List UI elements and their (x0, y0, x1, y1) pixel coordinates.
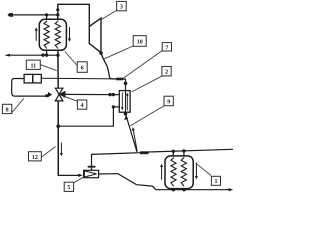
node recuperator lower port (112, 105, 115, 108)
svg-text:8: 8 (6, 108, 9, 114)
node condenser top stub 2 (182, 149, 185, 152)
svg-text:5: 5 (67, 185, 70, 191)
leader 10 (104, 46, 133, 59)
node HX1 bottom stub 2 (56, 54, 59, 57)
label 3 (117, 1, 127, 10)
label 12 (29, 152, 42, 161)
label boxes (2, 1, 220, 191)
svg-text:2: 2 (165, 70, 168, 76)
label 6 (77, 62, 87, 73)
leader 5 (74, 177, 84, 183)
node condenser bottom stub 2 (182, 188, 185, 191)
leader 9 (131, 106, 165, 126)
node condenser bottom stub 1 (172, 188, 175, 191)
coil zigzag 1 of E2 (171, 158, 176, 186)
node junction top header / riser (56, 13, 59, 16)
center pipe through recuperator (125, 91, 127, 114)
svg-text:1: 1 (215, 179, 218, 185)
flow arrow beside slant pipe (133, 130, 137, 151)
wire left feed line y=55 (6, 54, 58, 56)
wire pump P2 top line to condenser top header (92, 153, 141, 155)
leader lines (12, 11, 211, 183)
svg-text:12: 12 (32, 155, 38, 161)
leader 12 (42, 147, 56, 157)
wire HX1 top stub (46, 15, 48, 20)
wire condenser top header to right edge (149, 149, 233, 152)
flow arrow up, left of E1 (35, 30, 37, 41)
flow arrow up, left of E2 (161, 166, 163, 179)
pump P2 vent stub (91, 154, 93, 170)
wire exhaust elbow down into recuperator (123, 79, 126, 91)
label 1 (211, 176, 220, 185)
node junction top header / HX1 stub (45, 13, 48, 16)
leader 6 (65, 52, 77, 66)
svg-text:3: 3 (120, 5, 123, 11)
node on valve-recuperator line 1 (108, 93, 111, 96)
node turbine exhaust (99, 51, 103, 55)
wire pump suction loop to valve (12, 79, 47, 97)
pump P2 (bottom center) (84, 170, 99, 177)
valve lower triangle (55, 94, 63, 101)
pump P1 double box (24, 74, 33, 83)
leader 2 (132, 76, 162, 92)
svg-text:10: 10 (137, 40, 143, 46)
node HX1 bottom stub 1 (45, 53, 48, 56)
wire HX1 to turbine steam line (58, 4, 90, 26)
wire HX1 down to valve (57, 50, 59, 88)
flow arrow down, right of E2 (195, 163, 197, 177)
leader 3 (101, 11, 117, 20)
leader 4 (66, 97, 77, 101)
recuperator U1 (tall rectangle) (119, 91, 130, 113)
label 5 (64, 182, 73, 191)
svg-text:9: 9 (167, 100, 170, 106)
leader 7 (123, 51, 162, 79)
restrictor bar 2 (140, 151, 149, 154)
node on valve-recuperator line 2 (112, 93, 115, 96)
svg-text:4: 4 (81, 103, 84, 109)
coil zigzag 1 of E1 (44, 21, 49, 48)
arrow into pump2 (78, 174, 83, 177)
wire valve bottom pipe down (57, 101, 59, 175)
coil zigzag 2 of E1 (55, 21, 60, 48)
leader 11 (41, 65, 57, 71)
node loop end (45, 94, 48, 97)
wire condenser top stubs (172, 151, 174, 156)
wire condenser bottom stubs (172, 189, 174, 190)
valve upper triangle (55, 88, 63, 94)
wire turbine exhaust curve (101, 53, 116, 79)
node recuperator bottom (124, 112, 128, 116)
wire elbow to pump2 inlet (58, 174, 79, 176)
label 10 (133, 36, 146, 47)
turbine T1 (89, 18, 101, 53)
valve right triangle filled (59, 91, 66, 98)
label 8 (2, 104, 11, 113)
node on riser (56, 8, 59, 11)
wire valve to recuperator left upper port (65, 93, 119, 95)
heat exchanger E2 (condenser, bottom right) (165, 156, 193, 189)
flow arrow down, right of E1 (69, 28, 71, 40)
arrow left end of top header (7, 13, 13, 17)
internal arrow up (126, 95, 128, 110)
wire pump P2 outlet to condenser bottom (99, 174, 231, 190)
internal arrow down (121, 93, 123, 108)
svg-text:7: 7 (165, 45, 168, 51)
restrictor bar on exhaust line (116, 78, 123, 81)
arrow small left end feed line (5, 54, 10, 57)
arrow right end bottom line (229, 188, 234, 191)
arrow up on slant pipe (124, 115, 128, 120)
leader 8 (12, 98, 24, 112)
coil zigzag 2 of E2 (181, 158, 186, 186)
label 4 (77, 100, 86, 109)
node condenser top stub 1 (172, 150, 175, 153)
wire top supply header (9, 14, 58, 16)
arrow into valve left (48, 92, 52, 97)
heat exchanger E1 (boiler, top left) (39, 19, 66, 50)
label 9 (164, 96, 173, 106)
wire HX1 bottom stub 1 (46, 50, 48, 55)
node on feed line (41, 53, 44, 56)
node above recuperator (124, 82, 128, 86)
label 7 (162, 43, 171, 51)
label 11 (26, 60, 40, 69)
leader 1 (197, 164, 212, 176)
wire branch to recuperator lower port (58, 107, 119, 126)
svg-text:11: 11 (30, 63, 36, 69)
wire pump discharge long line to condenser inlet (42, 77, 117, 80)
flow arrow down beside pipe (60, 143, 62, 154)
svg-text:6: 6 (81, 66, 84, 72)
label 2 (162, 67, 171, 76)
node branch on valve bottom pipe (56, 124, 60, 128)
